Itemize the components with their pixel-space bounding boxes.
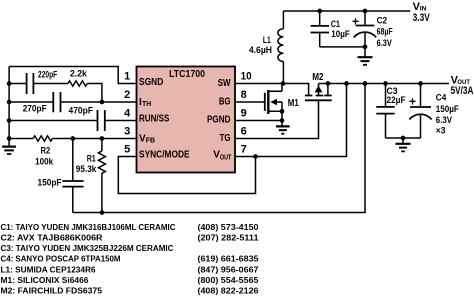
svg-text:5V/3A: 5V/3A: [451, 85, 474, 97]
svg-text:6.3V: 6.3V: [377, 38, 392, 48]
svg-text:10: 10: [241, 70, 252, 82]
svg-text:270pF: 270pF: [23, 104, 47, 114]
svg-text:C2: C2: [377, 16, 388, 26]
svg-text:470pF: 470pF: [69, 105, 94, 115]
svg-text:C1: TAIYO YUDEN JMK316BJ106ML: C1: TAIYO YUDEN JMK316BJ106ML CERAMIC: [1, 222, 176, 232]
svg-text:7: 7: [241, 143, 247, 155]
svg-text:C4: SANYO POSCAP 6TPA150M: C4: SANYO POSCAP 6TPA150M: [1, 254, 121, 264]
svg-text:L1: SUMIDA CEP1234R6: L1: SUMIDA CEP1234R6: [1, 264, 96, 274]
svg-text:1: 1: [124, 70, 130, 82]
svg-text:(408) 573-4150: (408) 573-4150: [198, 222, 259, 232]
svg-text:2.2k: 2.2k: [70, 68, 88, 78]
svg-text:TH: TH: [142, 101, 151, 108]
svg-text:(207) 282-5111: (207) 282-5111: [198, 232, 259, 242]
svg-text:(800) 554-5565: (800) 554-5565: [198, 275, 259, 285]
svg-text:BG: BG: [219, 96, 231, 107]
svg-text:LTC1700: LTC1700: [169, 69, 205, 80]
svg-text:SW: SW: [218, 78, 231, 89]
svg-text:RUN/SS: RUN/SS: [139, 113, 170, 124]
svg-text:SGND: SGND: [139, 77, 163, 88]
svg-text:3.3V: 3.3V: [413, 12, 431, 24]
svg-text:(619) 661-6835: (619) 661-6835: [198, 254, 259, 264]
svg-text:+: +: [352, 14, 359, 28]
svg-text:SYNC/MODE: SYNC/MODE: [139, 150, 190, 161]
svg-text:(408) 822-2126: (408) 822-2126: [198, 286, 259, 296]
svg-text:R1: R1: [87, 154, 96, 164]
svg-text:M1: SILICONIX Si6466: M1: SILICONIX Si6466: [1, 275, 89, 285]
svg-text:6: 6: [241, 125, 247, 137]
svg-text:OUT: OUT: [220, 155, 232, 162]
svg-text:FB: FB: [146, 138, 155, 145]
svg-text:C1: C1: [331, 19, 340, 29]
svg-text:6.3V: 6.3V: [436, 115, 452, 125]
svg-text:10µF: 10µF: [331, 29, 350, 39]
svg-text:100k: 100k: [35, 156, 54, 166]
svg-text:2: 2: [124, 89, 130, 101]
svg-text:+: +: [409, 94, 416, 108]
svg-text:8: 8: [241, 89, 247, 101]
svg-text:150pF: 150pF: [38, 178, 62, 188]
svg-text:M1: M1: [288, 97, 299, 109]
svg-text:220pF: 220pF: [38, 70, 58, 80]
svg-text:TG: TG: [220, 133, 231, 144]
svg-text:68µF: 68µF: [377, 27, 393, 37]
svg-text:5: 5: [124, 143, 130, 155]
svg-text:4.6µH: 4.6µH: [249, 45, 272, 55]
svg-text:9: 9: [241, 107, 247, 119]
svg-text:R2: R2: [41, 146, 51, 156]
svg-text:95.3k: 95.3k: [76, 164, 98, 174]
svg-text:(847) 956-0667: (847) 956-0667: [198, 264, 259, 274]
svg-text:C4: C4: [436, 93, 447, 103]
svg-text:4: 4: [124, 107, 131, 119]
svg-text:150µF: 150µF: [436, 104, 459, 114]
svg-text:M2: M2: [312, 71, 323, 83]
svg-text:L1: L1: [263, 35, 271, 45]
svg-text:C2: AVX TAJB686K006R: C2: AVX TAJB686K006R: [1, 232, 104, 242]
svg-text:M2: FAIRCHILD FDS6375: M2: FAIRCHILD FDS6375: [1, 286, 103, 296]
svg-text:C3: TAIYO YUDEN JMK325BJ226M C: C3: TAIYO YUDEN JMK325BJ226M CERAMIC: [1, 243, 174, 253]
svg-text:PGND: PGND: [207, 114, 231, 125]
svg-text:3: 3: [124, 125, 130, 137]
svg-text:22µF: 22µF: [387, 95, 406, 105]
svg-text:×3: ×3: [436, 125, 446, 135]
